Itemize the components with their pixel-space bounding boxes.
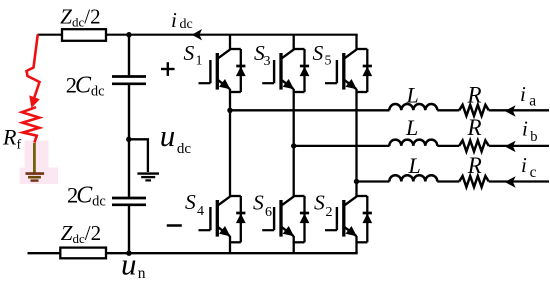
svg-text:u: u [121,246,137,281]
top rail left stub [38,34,63,36]
resistor R (phase a) [459,105,489,116]
svg-text:b: b [530,129,537,145]
wire phase c [357,180,390,182]
wire [489,180,549,182]
svg-text:Zdc/2: Zdc/2 [61,221,101,246]
svg-text:3: 3 [264,54,271,69]
svg-text:c: c [530,164,537,181]
node B [291,143,296,148]
node mid [126,137,131,142]
fault ground [26,172,45,175]
transistor S1 [199,49,246,89]
resistor Zdc/2 bottom [60,248,106,259]
bottom rail left stub [28,252,62,254]
node A [227,108,232,113]
arrow i_dc [192,29,202,40]
svg-text:1: 1 [196,54,203,69]
svg-text:dc: dc [177,141,192,157]
svg-text:R: R [467,153,482,178]
svg-text:i: i [171,8,177,32]
svg-text:S: S [313,41,324,65]
wire S5 emitter to node C [355,89,357,182]
wire S2 emitter to bottom rail [355,236,357,253]
svg-text:6: 6 [265,205,272,220]
svg-text:2Cdc: 2Cdc [66,72,105,99]
wire [437,109,459,111]
capacitor 2Cdc bottom [112,197,146,200]
fault ground lead [33,143,36,174]
diode D2 lead [366,196,368,242]
node bottom [126,251,131,256]
diode D3 lead [303,49,305,92]
resistor Zdc/2 top [62,29,106,41]
svg-text:L: L [405,115,418,140]
svg-text:5: 5 [325,54,332,69]
wire bottom rail [106,252,358,254]
minus sign [167,224,182,227]
diode D4 lead [240,196,242,242]
transistor S4 [199,196,246,236]
ground (midpoint) [137,172,159,174]
wire top rail [106,34,358,36]
capacitor 2Cdc top [112,75,146,78]
wire S4 emitter to bottom rail [229,236,231,253]
wire S1 collector [229,35,231,50]
resistor R (phase c) [459,176,489,187]
left DC bus [128,35,130,76]
svg-text:L: L [406,82,419,107]
svg-text:2: 2 [326,205,333,220]
fault wire (red) [27,34,40,103]
wire to midpoint ground [129,139,148,172]
wire [489,145,549,147]
diode D6 lead [303,196,305,242]
node top [126,32,131,37]
inductor L (phase a) [389,104,437,110]
svg-text:i: i [521,153,527,177]
inductor L (phase b) [389,140,437,146]
transistor S2 [325,196,372,236]
wire [437,145,459,147]
inductor L (phase c) [389,175,437,181]
arrow i_c [505,176,516,187]
svg-text:dc: dc [180,17,193,32]
svg-text:S: S [314,191,325,215]
transistor S5 [325,49,372,89]
wire S3 collector [293,35,295,50]
svg-text:Zdc/2: Zdc/2 [60,5,100,30]
svg-text:a: a [529,92,536,109]
svg-text:i: i [522,117,528,141]
wire phase b [294,145,390,147]
diode D5 lead [366,49,368,92]
svg-text:u: u [160,118,176,153]
diode D1 lead [240,49,242,92]
svg-text:R: R [467,115,482,140]
svg-text:S: S [253,191,264,215]
wire phase a [230,109,390,111]
svg-text:S: S [185,190,196,214]
wire node A to S4 [229,110,231,196]
svg-text:S: S [184,41,195,65]
wire node B to S6 [293,146,295,197]
wire [489,109,549,111]
svg-text:R: R [467,82,482,107]
arrow i_a [505,105,516,116]
wire S3 emitter to node B [293,89,295,147]
wire S1 emitter to node A [229,89,231,111]
pink highlight [25,141,49,169]
fault arrowhead [29,95,40,108]
svg-text:Rf: Rf [2,125,21,153]
svg-text:2Cdc: 2Cdc [67,182,106,209]
transistor S3 [262,49,309,89]
wire node C to S2 [355,182,357,197]
transistor S6 [262,196,309,236]
wire [437,180,459,182]
wire S5 collector [355,35,357,50]
svg-text:n: n [138,265,146,282]
wire S6 emitter to bottom rail [293,236,295,253]
plus sign [161,68,175,70]
svg-text:L: L [408,153,421,178]
resistor R (phase b) [459,140,489,151]
svg-text:4: 4 [197,204,204,219]
resistor Rf (red zigzag) [22,107,39,142]
node C [354,179,359,184]
arrow i_b [505,141,516,152]
svg-text:i: i [520,82,526,106]
